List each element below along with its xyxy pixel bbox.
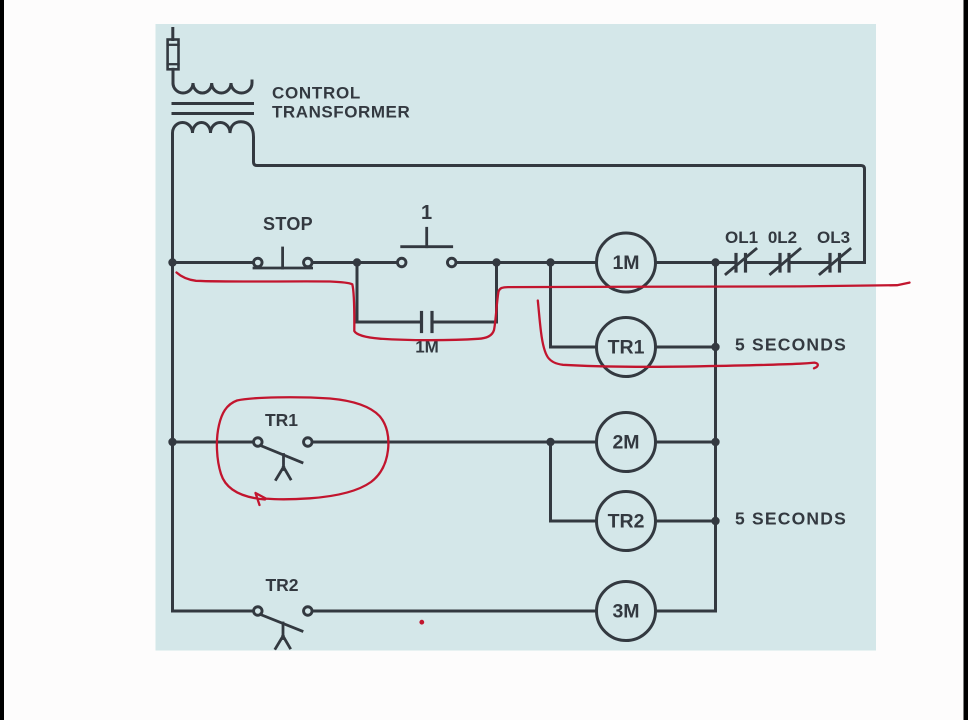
node rung1 left rail (168, 258, 176, 266)
wire coil 3M to center rail (656, 610, 716, 613)
node TR2 coil center rail (711, 517, 719, 525)
node TR2 branch top (546, 438, 554, 446)
overload contact OL2 (771, 249, 801, 274)
wire pushbutton1 to coil 1M (456, 261, 596, 264)
svg-text:1: 1 (421, 202, 432, 224)
svg-text:TR1: TR1 (265, 410, 298, 430)
node rung2 left rail (168, 438, 176, 446)
transformer T1 primary winding (173, 70, 252, 93)
svg-text:TRANSFORMER: TRANSFORMER (272, 103, 410, 122)
contact TR1 (NOTC timed) (254, 438, 313, 480)
svg-text:STOP: STOP (263, 214, 313, 234)
svg-text:CONTROL: CONTROL (272, 84, 361, 103)
svg-text:TR1: TR1 (608, 337, 645, 359)
contact 1M auxiliary (NO) (422, 313, 433, 332)
svg-text:5 SECONDS: 5 SECONDS (735, 334, 847, 354)
fuse F1 (168, 29, 179, 84)
annotation red dot (419, 620, 424, 625)
wire OL1 to OL2 (746, 261, 781, 264)
annotation red circle TR1 contact (217, 397, 389, 505)
coil 2M (597, 413, 656, 472)
node rung1 center rail (711, 258, 719, 266)
wire rung3 left to TR2 contact (173, 610, 252, 613)
transformer T1 secondary winding (173, 122, 865, 263)
wire left rail (171, 138, 174, 611)
wire TR1 branch (551, 263, 597, 348)
annotation red underline rung1 (177, 273, 910, 341)
wire TR1 contact to coil 2M (313, 441, 596, 444)
pushbutton 1 (NO) (397, 228, 456, 266)
svg-text:TR2: TR2 (608, 511, 645, 533)
wire OL3 to right rail (840, 261, 865, 264)
coil 1M (597, 233, 656, 292)
node TR1 coil center rail (711, 343, 719, 351)
overload contact OL3 (820, 249, 850, 274)
svg-text:5 SECONDS: 5 SECONDS (735, 508, 847, 528)
wire TR2 branch (551, 442, 597, 521)
label CONTROL TRANSFORMER (272, 84, 410, 122)
wire coil TR1 to center rail (656, 346, 716, 349)
svg-text:TR2: TR2 (265, 575, 298, 595)
svg-text:2M: 2M (612, 432, 639, 454)
wire coil 2M to center rail (656, 441, 716, 444)
coil TR1 (597, 318, 656, 377)
wire STOP to node A (313, 261, 397, 264)
wire 1M branch right-up (432, 263, 497, 323)
wire OL2 to OL3 (789, 261, 830, 264)
wire center rail (714, 263, 717, 612)
wire coil TR2 to center rail (656, 520, 716, 523)
contact TR2 (NOTC timed) (254, 607, 313, 649)
annotation red underline TR1 (538, 301, 818, 369)
wire 1M branch down-left (357, 263, 422, 323)
wire coil 1M to OL contacts (656, 261, 737, 264)
transformer T1 core (173, 104, 253, 114)
svg-text:OL3: OL3 (817, 228, 850, 247)
coil TR2 (597, 492, 656, 551)
svg-text:3M: 3M (612, 601, 639, 623)
overload contact OL1 (726, 249, 756, 274)
wire TR2 contact to coil 3M (313, 610, 596, 613)
coil 3M (597, 582, 656, 641)
node TR1 branch top (546, 258, 554, 266)
svg-text:0L2: 0L2 (768, 228, 797, 247)
svg-text:OL1: OL1 (725, 228, 758, 247)
node rung2 center rail (711, 438, 719, 446)
node 1M branch left (353, 258, 361, 266)
pushbutton STOP (NC) (254, 248, 313, 268)
svg-text:1M: 1M (612, 252, 639, 274)
wire rung1 left to STOP (173, 261, 254, 264)
wire rung2 left to TR1 contact (173, 441, 252, 444)
node 1M branch right (492, 258, 500, 266)
